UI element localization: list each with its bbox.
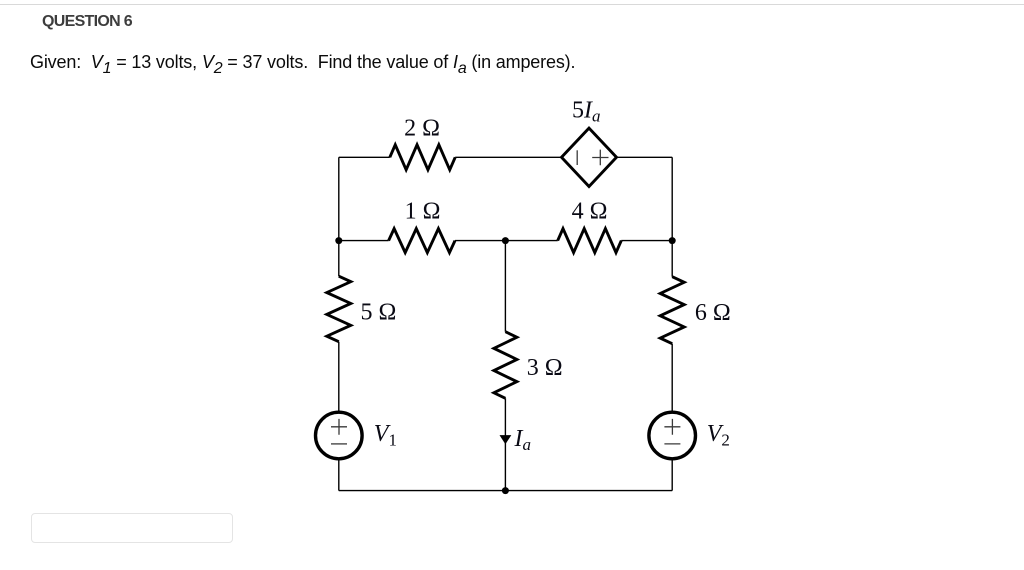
resistor R 4ohm: [558, 229, 622, 253]
resistor R 5ohm: [327, 276, 351, 342]
svg-text:2 Ω: 2 Ω: [404, 116, 440, 142]
dependent source minus bar: [576, 150, 578, 165]
wire right rail middle: [671, 344, 673, 412]
wire row2 left segment: [339, 240, 389, 242]
resistor R 2ohm: [390, 145, 455, 170]
wire top horizontal left: [339, 156, 390, 158]
heading QUESTION 6: [42, 13, 132, 31]
dependent source plus sign: [592, 150, 608, 166]
voltage source V1 circle: [316, 412, 363, 459]
problem statement: [30, 52, 575, 73]
current arrow Ia: [500, 435, 512, 444]
wire left rail upper: [338, 157, 340, 276]
wire top horizontal right: [455, 156, 672, 158]
svg-text:5 Ω: 5 Ω: [361, 299, 397, 325]
junction node row2 right: [669, 237, 676, 244]
V2 minus sign: [664, 443, 680, 445]
wire middle rail lower: [504, 398, 506, 490]
svg-text:Ia: Ia: [514, 426, 532, 454]
svg-text:3 Ω: 3 Ω: [527, 355, 563, 381]
resistor R 1ohm: [389, 229, 455, 253]
top hairline: [0, 4, 1024, 5]
junction node row2 middle: [502, 237, 509, 244]
V2 plus sign: [664, 419, 680, 435]
V1 plus sign: [331, 419, 347, 435]
wire right rail lower: [671, 460, 673, 491]
svg-text:V1: V1: [374, 421, 397, 450]
wire right rail upper: [671, 157, 673, 276]
svg-text:1 Ω: 1 Ω: [405, 198, 441, 224]
svg-text:V2: V2: [707, 421, 730, 450]
resistor R 6ohm: [660, 277, 684, 344]
wire middle rail upper: [504, 241, 506, 332]
wire left rail lower: [338, 460, 340, 491]
answer input box: [31, 513, 233, 543]
junction node bottom middle: [502, 487, 509, 494]
wire row2 right segment: [621, 240, 672, 242]
svg-text:4 Ω: 4 Ω: [572, 198, 608, 224]
wire row2 middle segment: [455, 240, 558, 242]
svg-text:5Ia: 5Ia: [572, 98, 601, 126]
voltage source V2 circle: [649, 412, 696, 459]
wire bottom horizontal: [339, 490, 672, 492]
dependent source U1 diamond: [562, 128, 617, 186]
V1 minus sign: [331, 443, 347, 445]
resistor R 3ohm: [494, 332, 517, 399]
junction node row2 left: [335, 237, 342, 244]
svg-text:6 Ω: 6 Ω: [695, 300, 731, 326]
wire left rail middle: [338, 342, 340, 412]
